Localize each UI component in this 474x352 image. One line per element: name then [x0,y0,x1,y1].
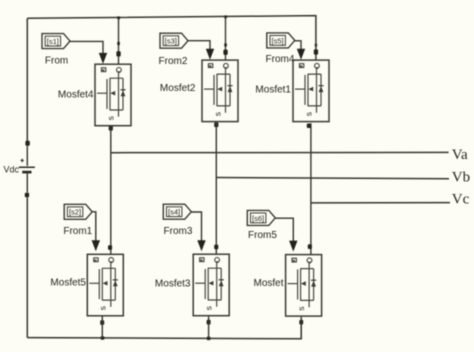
dc voltage source Vdc [19,146,35,193]
mosfet Mosfet (Q6) [286,255,322,317]
svg-text:Vdc: Vdc [3,165,19,175]
port square: Mosfet source [299,320,303,325]
arrowhead into Mosfet4 gate [99,53,107,64]
signal dot on leg C drain [315,43,318,46]
wire: s1 gate feed [70,41,103,54]
wire: phase B output [216,178,449,179]
svg-text:Mosfet1: Mosfet1 [255,85,291,96]
wire: Mosfet source to bus [300,317,302,339]
port square: Mosfet1 source [307,124,311,129]
port square: Vdc - terminal [25,193,29,198]
From tag s1 [42,34,70,49]
arrowhead into Mosfet1 gate [297,49,305,60]
svg-text:[s5]: [s5] [272,36,284,45]
arrowhead into Mosfet2 gate [206,49,214,60]
From tag s3 [160,33,188,48]
svg-text:Vb: Vb [452,170,470,186]
arrowhead into Mosfet3 gate [197,240,205,251]
svg-text:Mosfet3: Mosfet3 [155,279,191,290]
port square: Mosfet6 drain [308,244,312,249]
port square: Mosfet4 drain [116,51,120,56]
mosfet Mosfet1 [293,60,329,122]
svg-text:From3: From3 [164,226,193,237]
port square: Mosfet2 source [214,122,218,127]
svg-text:[s3]: [s3] [165,37,177,46]
port square: Mosfet3 drain [214,245,218,250]
arrowhead into Mosfet5 gate [92,240,100,251]
wire: phase C output [311,202,450,204]
wire: bottom return bus [27,324,301,339]
wire: leg C midpoint [310,123,312,254]
wire: Mosfet5 source to bus [101,317,103,338]
svg-text:From5: From5 [248,230,277,241]
svg-text:From2: From2 [159,56,188,67]
wire: left DC rail lower [26,197,28,337]
junction node: bus to Mosfet5 source [101,336,104,339]
svg-text:From1: From1 [63,226,92,237]
svg-text:Mosfet4: Mosfet4 [58,89,94,100]
port square: Mosfet2 drain [223,50,227,55]
From tag s5 [267,33,295,48]
port square: Mosfet4 source [109,126,113,131]
wire: leg A drain (bus to Mosfet4) [118,18,120,64]
signal dot on leg A drain [117,42,120,46]
wire: s3 gate feed [188,41,210,50]
arrowhead into Mosfet gate [289,241,297,252]
wire: leg A midpoint [110,126,112,254]
mosfet Mosfet2 [202,60,238,122]
svg-text:Mosfet: Mosfet [253,278,283,289]
wire: s6 gate feed [275,218,293,241]
wire: s4 gate feed [191,212,201,241]
svg-text:[s4]: [s4] [168,208,180,217]
svg-text:[s1]: [s1] [47,37,59,46]
port square: Mosfet5 source [100,320,104,325]
mosfet Mosfet3 [193,254,229,316]
wire: leg B midpoint [215,122,217,254]
wire: leg B drain (bus to Mosfet2) [225,16,227,59]
From tag s2 [64,204,92,219]
From tag s6 [247,210,275,225]
junction node: bus to leg B [224,15,227,18]
wire: s5 gate feed [295,41,301,50]
svg-text:[s6]: [s6] [252,214,264,223]
junction node: bus to Mosfet3 source [207,337,210,340]
junction node: bus to leg A [117,16,120,19]
port square: Vdc + terminal [25,141,29,146]
svg-text:Mosfet5: Mosfet5 [50,278,86,289]
svg-text:Vc: Vc [452,191,470,207]
svg-text:Mosfet2: Mosfet2 [160,83,196,94]
mosfet Mosfet4 [95,64,131,126]
signal dot on leg B drain [224,43,227,46]
port square: Mosfet5 drain [108,245,112,250]
wire: Mosfet3 source to bus [208,316,210,338]
wire: top DC bus [27,16,316,60]
From tag s4 [163,204,191,219]
svg-text:From4: From4 [266,54,295,65]
wire: phase A output [111,151,449,153]
svg-text:[s2]: [s2] [69,208,81,217]
wire: left DC rail upper [26,18,28,141]
port square: Mosfet3 source [207,320,211,325]
wire: s2 gate feed [92,212,96,241]
svg-text:Va: Va [452,147,468,163]
mosfet Mosfet5 [87,254,123,315]
svg-text:From: From [45,56,68,67]
port square: Mosfet1 drain [314,49,318,54]
